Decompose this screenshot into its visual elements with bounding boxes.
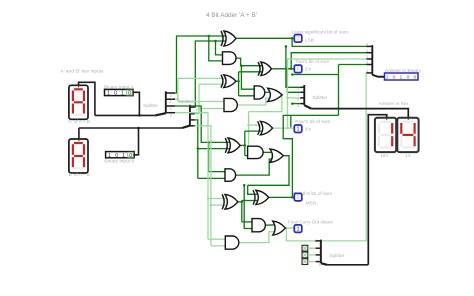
and gate U16 (C3&p3) <box>252 219 265 232</box>
constant 0 bit2 <box>302 252 308 258</box>
svg-text:3: 3 <box>170 114 172 118</box>
wire C2 <box>249 95 282 112</box>
wire bus A trunk <box>95 114 155 116</box>
wire AND_a1 out <box>265 91 272 93</box>
or gate U7 (carry C2) <box>268 88 283 101</box>
svg-text:0: 0 <box>114 91 117 97</box>
svg-text:MSB: MSB <box>306 200 316 206</box>
wire B3 <box>195 126 211 246</box>
svg-text:2: 2 <box>297 98 299 102</box>
wire A0 <box>175 36 226 93</box>
display DISP-B input tick <box>78 139 80 141</box>
svg-text:2: 2 <box>319 257 321 261</box>
and gate U6 (C1&p1) <box>254 86 265 99</box>
svg-text:1: 1 <box>196 115 198 119</box>
svg-text:3: 3 <box>297 104 299 108</box>
svg-text:1: 1 <box>297 127 300 133</box>
svg-text:Four's bit of sum: Four's bit of sum <box>295 119 330 125</box>
svg-text:0: 0 <box>319 243 321 247</box>
wire C1 <box>236 58 262 66</box>
wire B0 branch to AND1 <box>214 40 217 43</box>
wire AND_b3 out <box>239 232 277 243</box>
constant 0 bit3 <box>302 259 308 265</box>
wire B1 <box>195 113 199 115</box>
svg-text:0: 0 <box>129 153 132 159</box>
svg-text:1: 1 <box>122 153 125 159</box>
svg-text:2: 2 <box>170 107 172 111</box>
svg-text:1: 1 <box>319 250 321 254</box>
wire A3 <box>175 113 208 240</box>
wire S3 branch <box>291 196 294 199</box>
svg-text:Two's bit of sum: Two's bit of sum <box>295 59 329 65</box>
svg-text:LSB: LSB <box>305 37 314 43</box>
output pin 2's <box>294 65 302 73</box>
svg-text:0: 0 <box>407 75 410 81</box>
svg-text:1: 1 <box>386 75 389 81</box>
svg-text:0: 0 <box>366 43 368 47</box>
svg-text:Final Carry Out ofsum: Final Carry Out ofsum <box>288 219 333 224</box>
wire bus B trunk <box>79 127 182 129</box>
wire A1 <box>175 98 178 100</box>
wire AND_b1 out <box>237 98 271 105</box>
wire AND_b2 out <box>236 159 274 175</box>
hex display DISP-A <box>69 85 88 119</box>
svg-text:0: 0 <box>297 36 300 42</box>
hex display DISP-B <box>69 139 88 173</box>
constant 0 bit1 <box>302 245 308 251</box>
svg-text:Binary Input B: Binary Input B <box>104 159 134 165</box>
svg-text:'A' and 'B' hex inputs: 'A' and 'B' hex inputs <box>60 68 105 74</box>
wire AND_a2 out <box>263 151 274 153</box>
svg-text:2: 2 <box>366 55 368 59</box>
svg-text:1: 1 <box>297 93 299 97</box>
output pin MSB <box>294 193 302 201</box>
hex display 1's <box>397 118 418 152</box>
wire S0 out <box>236 37 294 39</box>
wire bus 16's digit riser <box>368 115 386 265</box>
xor gate U10 (sum S2) <box>260 121 272 135</box>
svg-text:4: 4 <box>366 69 368 73</box>
wire constant bit3 <box>308 261 316 263</box>
svg-text:4's: 4's <box>305 126 312 132</box>
wire S3 out <box>269 196 295 198</box>
svg-text:3: 3 <box>319 263 321 267</box>
wire p3 <box>238 201 242 203</box>
svg-text:1: 1 <box>366 49 368 53</box>
display 16's input tick <box>386 118 388 120</box>
output pin LSB <box>294 35 302 43</box>
wire S2 branch <box>286 127 289 130</box>
svg-text:1's: 1's <box>405 153 411 158</box>
probe Answer in Binary <box>385 73 419 80</box>
and gate U14 (A3&B3) <box>225 236 239 249</box>
wire B0 <box>195 41 226 107</box>
svg-text:4 Bit Adder 'A + B': 4 Bit Adder 'A + B' <box>206 12 257 19</box>
wire bus input-B to splitter <box>133 128 138 155</box>
svg-text:0: 0 <box>297 67 300 73</box>
wire bus display-B feed <box>78 128 80 139</box>
splitter SP-E <box>371 45 373 75</box>
or gate U12 (carry C3) <box>270 149 283 162</box>
svg-text:3: 3 <box>366 61 368 65</box>
svg-text:Splitter: Splitter <box>329 253 344 259</box>
or gate U17 (carry C4) <box>273 221 286 235</box>
and gate U11 (C2&p2) <box>248 146 264 158</box>
splitter SP-D <box>320 240 322 264</box>
wire p1 <box>236 80 239 82</box>
junction A-bus input tap <box>138 114 141 117</box>
svg-text:Splitter: Splitter <box>143 103 158 109</box>
output pin carry-out <box>294 225 302 233</box>
splitter SP-A <box>155 113 166 115</box>
splitter SP-B <box>182 126 190 128</box>
display DISP-A input tick <box>78 85 80 87</box>
wire C4 to pin <box>285 227 294 229</box>
svg-text:0: 0 <box>170 94 172 98</box>
wire bus 16's digit <box>327 264 368 266</box>
svg-text:Splitter: Splitter <box>312 95 327 101</box>
xor gate U5 (sum S1) <box>261 62 272 76</box>
wire S2 out <box>273 127 295 129</box>
hex display 16's <box>375 118 396 152</box>
svg-text:0: 0 <box>115 153 118 159</box>
svg-text:0: 0 <box>393 75 396 81</box>
svg-text:1: 1 <box>108 153 111 159</box>
and gate U9 (A2&B2) <box>225 169 236 182</box>
splitter SP-C <box>303 85 305 105</box>
svg-text:1: 1 <box>107 91 110 97</box>
svg-text:Answer in hex: Answer in hex <box>378 101 409 107</box>
xor gate U3 (A1^B1) <box>224 75 236 88</box>
svg-text:0: 0 <box>297 195 300 201</box>
input pin Binary Input A <box>105 89 134 95</box>
svg-text:'A' of A + B: 'A' of A + B <box>68 119 90 124</box>
wire S1 branch <box>290 68 293 71</box>
svg-text:1: 1 <box>170 100 172 104</box>
wire bus 1's digit <box>311 109 408 118</box>
svg-text:1: 1 <box>297 226 300 232</box>
xor gate U1 (A0^B0) <box>224 31 236 46</box>
wire AND_a3 out <box>265 224 276 226</box>
wire p2 <box>240 144 245 146</box>
wire A2 <box>175 106 230 142</box>
svg-text:1: 1 <box>121 91 124 97</box>
and gate U2 (A0&B0) <box>223 52 237 65</box>
wire C3 <box>248 156 289 186</box>
svg-text:0: 0 <box>297 88 299 92</box>
wire bus display-A feed <box>79 82 95 115</box>
xor gate U8 (A2^B2) <box>228 138 240 153</box>
svg-text:0: 0 <box>414 75 417 81</box>
wire constant bit1 <box>308 247 316 249</box>
svg-text:'B' of A + B: 'B' of A + B <box>68 172 90 177</box>
wire S0 branch <box>291 37 294 40</box>
and gate U4 (A1&B1) <box>224 98 237 111</box>
wire constant bit2 <box>308 254 316 256</box>
wire A0 branch to AND1 <box>208 35 211 38</box>
wire C4 branch <box>285 227 288 230</box>
svg-text:1: 1 <box>400 75 403 81</box>
wire B2 <box>195 120 198 178</box>
svg-text:16's: 16's <box>380 153 389 158</box>
svg-text:2's: 2's <box>305 66 312 72</box>
display 1's input tick <box>407 118 409 120</box>
xor gate U13 (A3^B3) <box>225 194 238 209</box>
svg-text:0: 0 <box>128 91 131 97</box>
junction B-bus input tap <box>137 127 140 130</box>
output pin 4's <box>294 125 302 133</box>
input pin Binary Input B <box>106 152 135 158</box>
wire bus input-A to splitter <box>133 92 139 115</box>
wire S1 out <box>272 68 295 70</box>
xor gate U15 (sum S3) <box>256 190 269 204</box>
